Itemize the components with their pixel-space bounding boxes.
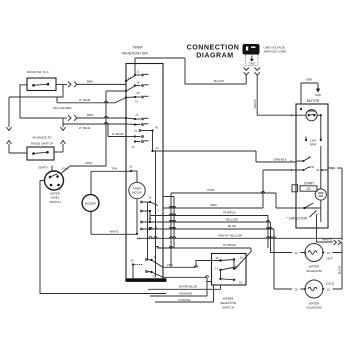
wire PURPLE upper <box>150 211 268 248</box>
svg-text:PURPLE: PURPLE <box>178 298 190 302</box>
service cord black lead connector chevrons <box>243 68 249 85</box>
wire motor internal right <box>317 114 322 139</box>
svg-text:DOOR SW. N.O.: DOOR SW. N.O. <box>27 70 50 74</box>
svg-text:YELLOW: YELLOW <box>225 217 238 221</box>
wire GRAY <box>61 91 127 174</box>
svg-text:20: 20 <box>294 288 298 292</box>
svg-text:TIMER: TIMER <box>133 46 144 50</box>
svg-text:BLUE: BLUE <box>228 224 236 228</box>
svg-text:MOTOR: MOTOR <box>132 191 142 195</box>
svg-text:* CAPACITOR: * CAPACITOR <box>287 217 308 221</box>
timer contact row 16 <box>134 81 149 87</box>
svg-text:LEVEL: LEVEL <box>51 196 60 200</box>
svg-text:TAN: TAN <box>112 166 117 170</box>
timer box <box>122 46 163 281</box>
svg-text:KNOB-PUSH OFF: KNOB-PUSH OFF <box>122 52 148 56</box>
svg-text:BLACK: BLACK <box>214 79 225 83</box>
wire LT BLUE 1 <box>57 97 126 103</box>
svg-text:4PM: 4PM <box>309 166 314 169</box>
svg-text:WHITE: WHITE <box>109 229 118 233</box>
motor main winding 1140 RPM <box>305 137 322 147</box>
timer right-center contact rows <box>141 196 160 231</box>
svg-text:EMPTY: EMPTY <box>39 165 49 169</box>
svg-text:GRAY: GRAY <box>85 161 93 165</box>
motor U1 box <box>296 99 328 228</box>
wire PURPLE lower to selector <box>157 243 251 269</box>
water level caption <box>49 191 60 204</box>
timer contact row 26 <box>125 91 149 104</box>
svg-text:22: 22 <box>294 251 298 255</box>
buzzer circle <box>82 195 99 212</box>
svg-text:BRN: BRN <box>87 79 93 83</box>
connector chevrons right pair <box>54 127 66 152</box>
bottom rail from water level switch <box>40 181 166 294</box>
title CONNECTION DIAGRAM <box>187 44 240 60</box>
svg-text:GND: GND <box>315 93 321 97</box>
rail yellow-red upper <box>9 84 63 97</box>
timer contact row 141 <box>132 140 149 149</box>
timer motor bottom lead to node 8 <box>136 199 141 241</box>
svg-text:MOTOR: MOTOR <box>307 99 320 103</box>
capacitor C1 box on motor edge <box>292 185 298 192</box>
svg-text:BRN: BRN <box>87 113 93 117</box>
svg-text:PINK: PINK <box>167 263 173 267</box>
svg-text:ADVANCE TO: ADVANCE TO <box>32 136 52 140</box>
svg-text:BUZZER: BUZZER <box>85 202 96 206</box>
timer contact row 15-43 <box>134 126 158 152</box>
svg-text:CONNECTION: CONNECTION <box>187 44 240 52</box>
svg-text:HOT: HOT <box>326 256 333 260</box>
rail lower to rinse <box>20 106 72 127</box>
water solenoid COLD <box>274 280 342 310</box>
wire PURPLE bottom <box>155 285 214 302</box>
wire 72 to selector left <box>163 277 212 281</box>
crossing hops small bumps <box>105 101 276 277</box>
svg-text:SOLENOID: SOLENOID <box>306 306 322 310</box>
svg-text:PINK: PINK <box>207 188 215 192</box>
wire WHITE buzzer to timer <box>91 211 137 234</box>
wire RED to motor 3 <box>163 170 296 208</box>
wire ORANGE bottom <box>150 282 207 297</box>
ground lead dashed box with GND arrow <box>246 55 259 66</box>
wire GRN with GND arrow <box>301 78 321 105</box>
centrifugal start switch circle <box>315 189 326 200</box>
door switch left lead <box>20 85 27 118</box>
timer motor M circle <box>129 182 145 198</box>
wire PINK upper <box>171 188 296 267</box>
svg-text:SWITCH: SWITCH <box>222 306 234 310</box>
svg-text:SERVICE CORD: SERVICE CORD <box>264 50 288 54</box>
svg-text:SWITCH: SWITCH <box>49 200 60 204</box>
svg-text:GRN: GRN <box>306 78 313 82</box>
wire BLUE to cold solenoid <box>150 224 274 289</box>
wire BRN lower to timer <box>63 113 126 121</box>
timer contact row lt blue 2 <box>126 123 149 125</box>
svg-text:LT. BLUE: LT. BLUE <box>79 126 91 130</box>
motor speed contact 5 <box>290 157 310 164</box>
svg-text:SOLENOID: SOLENOID <box>306 269 322 273</box>
timer contact row 12 <box>134 70 149 77</box>
wire WHITE-BLUE bottom <box>148 285 221 290</box>
start winding coil box <box>300 186 317 191</box>
selector caption <box>220 297 237 310</box>
svg-text:WATER: WATER <box>50 191 60 195</box>
svg-text:PURPLE: PURPLE <box>223 211 235 215</box>
timer lower contacts 30 <box>131 259 143 279</box>
service cord white lead connector chevrons <box>254 68 260 76</box>
wire WHITE to solenoids with connector <box>317 238 343 289</box>
svg-text:SS: SS <box>306 187 310 191</box>
svg-text:WATER: WATER <box>223 297 234 301</box>
water selector switch box <box>212 254 247 286</box>
svg-text:RINSE SWITCH: RINSE SWITCH <box>31 142 53 146</box>
wire GRN-BLK timer 42 to motor 5 <box>153 151 297 162</box>
svg-text:DIAGRAM: DIAGRAM <box>196 52 233 60</box>
svg-text:START: START <box>304 182 314 186</box>
timer internal feed vertical top <box>134 64 136 76</box>
svg-text:LT. BLUE: LT. BLUE <box>79 98 91 102</box>
svg-text:RPM: RPM <box>310 143 317 147</box>
water level switch left lead <box>40 180 45 182</box>
svg-text:ORANGE: ORANGE <box>179 291 192 295</box>
timer node 42 <box>151 146 159 152</box>
svg-text:BLACK: BLACK <box>338 265 342 274</box>
wire LT BLUE 3 <box>108 124 126 137</box>
svg-text:GND: GND <box>249 62 255 66</box>
timer inner vertical rails <box>155 151 157 277</box>
svg-text:GRN-BLK: GRN-BLK <box>273 157 286 161</box>
wire motor terminal 1 to right rail <box>328 166 342 240</box>
node junction on motor box top left <box>300 108 302 110</box>
svg-text:21: 21 <box>327 251 331 255</box>
timer contact row lt blue 3 <box>126 135 143 137</box>
timer contact row 17 arm <box>125 76 135 83</box>
svg-text:SELECTOR: SELECTOR <box>220 301 237 305</box>
water level switch circle <box>39 165 70 191</box>
svg-text:P: P <box>291 114 293 118</box>
water solenoid HOT <box>270 244 342 273</box>
timer contact row 91 arm <box>125 86 135 92</box>
timer lower contact 72 arm <box>146 271 163 279</box>
svg-text:WHITE: WHITE <box>253 99 257 108</box>
svg-text:TIMER: TIMER <box>133 187 141 191</box>
timer contact row 27 <box>125 113 149 120</box>
wire LT BLUE 2 <box>63 124 126 130</box>
svg-text:21: 21 <box>327 288 331 292</box>
svg-text:WHITE-BLUE: WHITE-BLUE <box>179 285 198 289</box>
wire PINK lower to selector <box>163 261 221 268</box>
rinse switch box <box>27 136 54 160</box>
water level switch top lead to empty <box>51 166 53 172</box>
timer lower contact 71 arm <box>146 255 163 267</box>
wire second pink track <box>163 197 174 249</box>
motor protector circle <box>306 110 317 121</box>
wire YELLOW to hot solenoid <box>150 217 271 252</box>
timer bottom heavy bar <box>126 278 167 282</box>
svg-text:LT. BLUE: LT. BLUE <box>112 132 124 136</box>
wire BLACK from timer to cord <box>135 58 246 84</box>
svg-text:WHITE-YELLOW: WHITE-YELLOW <box>218 234 242 238</box>
wire motor winding vertical <box>320 146 322 189</box>
start switch contact arm <box>296 200 321 222</box>
capacitor note and pointer <box>287 211 320 243</box>
door switch box <box>27 70 56 91</box>
wire WHITE vertical from cord to motor <box>253 75 306 118</box>
svg-text:RED: RED <box>210 203 217 207</box>
svg-text:YELLOW-RED: YELLOW-RED <box>52 106 71 110</box>
svg-text:PURPLE: PURPLE <box>223 243 235 247</box>
connector chevrons left pair <box>7 127 28 153</box>
wire WHITE-YELLOW long <box>137 234 342 239</box>
motor speed contact 3 with 4PM winding <box>290 166 328 172</box>
timer contact 61 tan entry <box>130 165 137 183</box>
line voltage service cord plug <box>243 44 288 55</box>
wire BRN door to timer <box>56 79 126 87</box>
svg-text:COLD: COLD <box>326 281 335 285</box>
wire TAN <box>91 166 131 195</box>
